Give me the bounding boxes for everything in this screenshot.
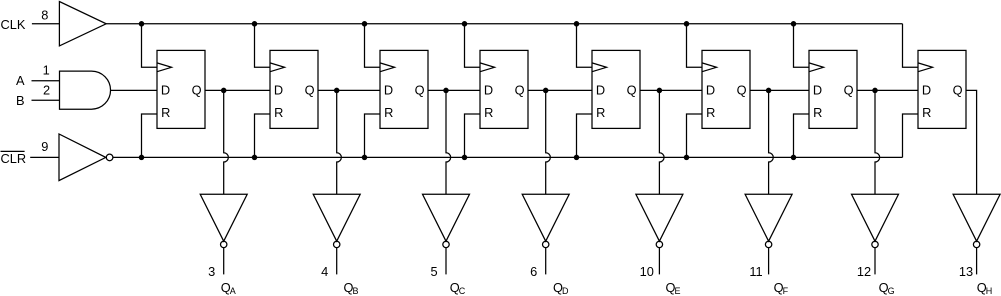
wire CLK drop to FF5: [577, 24, 593, 67]
pin 1: [43, 62, 50, 77]
svg-text:13: 13: [959, 264, 973, 279]
svg-text:D: D: [596, 82, 605, 97]
svg-text:D: D: [922, 82, 931, 97]
svg-text:A: A: [230, 286, 236, 296]
buffer output driver G: [852, 194, 899, 247]
svg-text:R: R: [596, 105, 605, 120]
pin 4: [321, 264, 328, 279]
wire QB drop with hop over CLR net: [337, 90, 342, 194]
junction CLR net at FF2: [252, 155, 258, 161]
junction QD node: [543, 88, 549, 94]
node QA output label: [221, 280, 236, 296]
junction QC node: [443, 88, 449, 94]
junction CLK net at FF6: [684, 21, 690, 27]
pin 13: [959, 264, 973, 279]
wire CLR rise to FF4 R: [465, 114, 481, 157]
wire QG drop with hop over CLR net: [875, 90, 880, 194]
svg-text:F: F: [783, 286, 789, 296]
node A input label: [16, 73, 25, 88]
flip-flop FF5: [592, 50, 640, 128]
svg-text:12: 12: [857, 264, 871, 279]
junction CLK net at FF5: [574, 21, 580, 27]
svg-text:1: 1: [43, 62, 50, 77]
wire AND output to FF1 D: [111, 89, 158, 91]
svg-text:4: 4: [321, 264, 328, 279]
pin 12: [857, 264, 871, 279]
pin 10: [640, 264, 654, 279]
wire CLR rise to FF5 R: [577, 114, 593, 157]
svg-text:D: D: [161, 82, 170, 97]
wire output QE pin: [658, 248, 660, 275]
buffer output driver D: [522, 194, 569, 247]
wire CLR rise to FF1 R: [142, 114, 158, 157]
wire QE drop with hop over CLR net: [659, 90, 664, 194]
pin 5: [430, 264, 437, 279]
wire output QF pin: [768, 248, 770, 275]
junction QE node: [657, 88, 663, 94]
junction CLR net at FF1: [139, 155, 145, 161]
wire CLR net rise to FF8 R: [903, 114, 919, 157]
svg-text:Q: Q: [953, 82, 963, 97]
svg-text:Q: Q: [844, 82, 854, 97]
svg-text:5: 5: [430, 264, 437, 279]
node QH output label: [977, 280, 993, 296]
pin 11: [749, 264, 762, 279]
wire CLR rise to FF6 R: [687, 114, 703, 157]
wire output QH pin: [976, 248, 978, 275]
flip-flop FF7: [809, 50, 857, 128]
wire output QD pin: [545, 248, 547, 275]
svg-text:R: R: [813, 105, 822, 120]
wire FF8 Q to output column H: [966, 90, 977, 194]
junction CLR net at FF5: [574, 155, 580, 161]
flip-flop FF8: [918, 50, 966, 128]
junction CLK net at FF7: [791, 21, 797, 27]
wire FF7 Q to FF8 D: [857, 89, 918, 91]
buffer output driver C: [423, 194, 470, 247]
pin 2: [43, 83, 50, 98]
flip-flop FF1: [157, 50, 205, 128]
buffer output driver A: [200, 194, 247, 247]
svg-text:A: A: [16, 73, 25, 88]
svg-text:Q: Q: [627, 82, 637, 97]
wire output QC pin: [445, 248, 447, 275]
wire CLK net horizontal: [106, 23, 902, 25]
pin 9: [41, 139, 48, 154]
wire FF6 Q to FF7 D: [750, 89, 809, 91]
buffer output driver E: [636, 194, 683, 247]
wire FF5 Q to FF6 D: [640, 89, 702, 91]
pin 6: [530, 264, 537, 279]
node CLK input label: [1, 17, 26, 32]
buffer output driver F: [745, 194, 792, 247]
svg-text:Q: Q: [305, 82, 315, 97]
node QF output label: [774, 280, 789, 296]
node QE output label: [666, 280, 681, 296]
wire B input: [32, 99, 60, 101]
svg-text:R: R: [706, 105, 715, 120]
svg-text:B: B: [353, 286, 359, 296]
svg-text:D: D: [706, 82, 715, 97]
svg-text:CLK: CLK: [1, 17, 26, 32]
AND gate U2 (A·B): [60, 71, 111, 109]
flip-flop FF2: [270, 50, 318, 128]
node QB output label: [344, 280, 359, 296]
wire A input: [32, 80, 60, 82]
wire CLR net horizontal: [113, 156, 903, 158]
svg-text:9: 9: [41, 139, 48, 154]
wire CLR input: [30, 156, 59, 158]
flip-flop FF4: [480, 50, 528, 128]
wire CLR rise to FF2 R: [255, 114, 271, 157]
svg-text:3: 3: [208, 264, 215, 279]
svg-text:D: D: [562, 286, 569, 296]
wire output QA pin: [223, 248, 225, 275]
inverter U3 (CLR): [59, 134, 113, 181]
wire CLK drop to FF2: [255, 24, 271, 67]
wire CLK net drop to FF8: [903, 24, 919, 67]
svg-text:Q: Q: [737, 82, 747, 97]
svg-text:CLR: CLR: [1, 151, 27, 166]
junction QF node: [766, 88, 772, 94]
wire CLK drop to FF1: [142, 24, 158, 67]
svg-text:D: D: [813, 82, 822, 97]
svg-text:Q: Q: [192, 82, 202, 97]
svg-text:D: D: [384, 82, 393, 97]
wire FF4 Q to FF5 D: [528, 89, 592, 91]
svg-text:G: G: [888, 286, 895, 296]
svg-text:H: H: [986, 286, 993, 296]
svg-text:8: 8: [41, 8, 48, 23]
junction CLK net at FF1: [139, 21, 145, 27]
node QD output label: [553, 280, 569, 296]
junction QG node: [872, 88, 878, 94]
svg-text:E: E: [675, 286, 681, 296]
svg-text:10: 10: [640, 264, 654, 279]
wire QF drop with hop over CLR net: [769, 90, 774, 194]
wire output QG pin: [874, 248, 876, 275]
wire QA drop with hop over CLR net: [224, 90, 229, 194]
flip-flop FF6: [702, 50, 750, 128]
svg-text:Q: Q: [415, 82, 425, 97]
svg-text:11: 11: [749, 264, 762, 279]
wire FF1 Q to FF2 D: [205, 89, 270, 91]
wire CLK drop to FF4: [465, 24, 481, 67]
pin 3: [208, 264, 215, 279]
junction QB node: [334, 88, 340, 94]
svg-text:Q: Q: [515, 82, 525, 97]
svg-text:R: R: [274, 105, 283, 120]
svg-text:R: R: [922, 105, 931, 120]
node QG output label: [879, 280, 895, 296]
wire CLR rise to FF7 R: [794, 114, 810, 157]
buffer U1 (CLK driver): [59, 2, 106, 46]
wire CLK input: [32, 23, 60, 25]
svg-text:R: R: [384, 105, 393, 120]
wire QC drop with hop over CLR net: [446, 90, 451, 194]
svg-text:R: R: [161, 105, 170, 120]
svg-text:R: R: [484, 105, 493, 120]
junction CLR net at FF6: [684, 155, 690, 161]
node B input label: [16, 93, 25, 108]
junction CLK net at FF4: [462, 21, 468, 27]
pin 8: [41, 8, 48, 23]
svg-text:D: D: [274, 82, 283, 97]
wire QD drop with hop over CLR net: [546, 90, 551, 194]
wire CLK drop to FF3: [365, 24, 381, 67]
buffer output driver B: [313, 194, 360, 247]
buffer output driver H: [953, 194, 1000, 247]
wire output QB pin: [336, 248, 338, 275]
wire FF2 Q to FF3 D: [318, 89, 380, 91]
svg-text:D: D: [484, 82, 493, 97]
junction CLR net at FF7: [791, 155, 797, 161]
junction CLK net at FF2: [252, 21, 258, 27]
node QC output label: [450, 280, 466, 296]
junction CLR net at FF4: [462, 155, 468, 161]
wire FF3 Q to FF4 D: [428, 89, 480, 91]
svg-text:6: 6: [530, 264, 537, 279]
svg-text:B: B: [16, 93, 25, 108]
svg-text:C: C: [459, 286, 466, 296]
flip-flop FF3: [380, 50, 428, 128]
node CLR input label (overbar): [1, 151, 27, 166]
wire CLK drop to FF7: [794, 24, 810, 67]
junction CLR net at FF3: [362, 155, 368, 161]
wire CLR rise to FF3 R: [365, 114, 381, 157]
wire CLK drop to FF6: [687, 24, 703, 67]
svg-text:2: 2: [43, 83, 50, 98]
junction CLK net at FF3: [362, 21, 368, 27]
junction QA node: [221, 88, 227, 94]
